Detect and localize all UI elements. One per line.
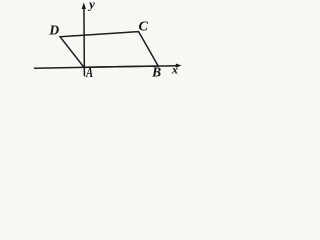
svg-text:C: C xyxy=(139,19,149,34)
svg-text:D: D xyxy=(48,22,59,37)
svg-text:A: A xyxy=(85,64,93,80)
svg-text:B: B xyxy=(151,65,161,80)
svg-text:x: x xyxy=(171,63,178,77)
svg-text:y: y xyxy=(87,0,95,12)
